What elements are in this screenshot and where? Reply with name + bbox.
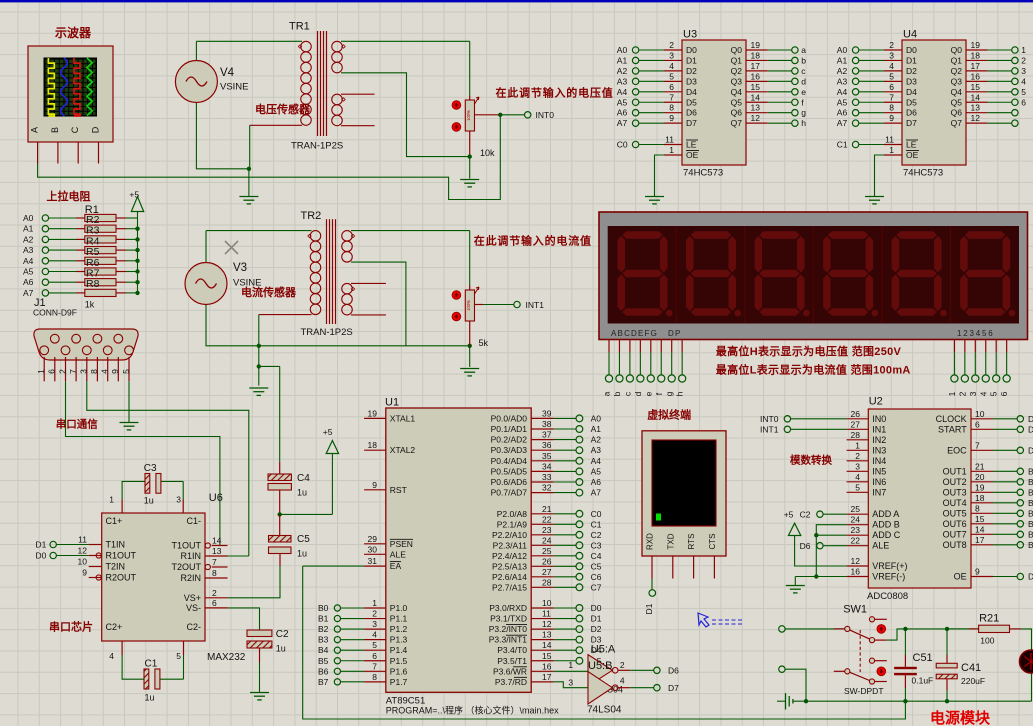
svg-text:A1: A1 [591, 424, 602, 434]
svg-text:T2OUT: T2OUT [171, 562, 201, 572]
svg-text:LE: LE [906, 140, 917, 150]
svg-text:B5: B5 [318, 656, 329, 666]
svg-text:3: 3 [79, 369, 89, 374]
svg-text:INT0: INT0 [760, 414, 779, 424]
svg-text:D6: D6 [686, 108, 697, 118]
svg-text:U5:B: U5:B [588, 660, 612, 672]
svg-text:最高位L表示显示为电流值 范围100mA: 最高位L表示显示为电流值 范围100mA [716, 363, 911, 377]
svg-text:EA: EA [390, 561, 402, 571]
svg-text:B0: B0 [318, 603, 329, 613]
svg-text:3: 3 [372, 619, 377, 629]
svg-text:U6: U6 [209, 492, 223, 504]
svg-text:最高位H表示显示为电压值 范围250V: 最高位H表示显示为电压值 范围250V [716, 344, 902, 358]
svg-text:A0: A0 [837, 45, 848, 55]
svg-text:D1: D1 [591, 614, 602, 624]
svg-text:3: 3 [855, 461, 860, 471]
svg-text:3: 3 [1021, 66, 1026, 76]
svg-text:A2: A2 [591, 435, 602, 445]
svg-text:2: 2 [372, 609, 377, 619]
svg-text:P0.2/AD2: P0.2/AD2 [491, 435, 528, 445]
svg-text:VREF(-): VREF(-) [872, 572, 905, 582]
svg-text:B4: B4 [318, 645, 329, 655]
svg-text:5: 5 [372, 640, 377, 650]
svg-text:16: 16 [851, 567, 861, 577]
svg-text:D2: D2 [906, 66, 917, 76]
svg-text:C3: C3 [144, 463, 157, 474]
svg-text:P3.2/INT0: P3.2/INT0 [489, 624, 528, 634]
svg-text:SW1: SW1 [843, 604, 867, 616]
svg-text:5: 5 [669, 71, 674, 81]
svg-text:3: 3 [669, 50, 674, 60]
svg-text:D3: D3 [686, 76, 697, 86]
svg-text:C1+: C1+ [106, 516, 123, 526]
svg-text:IN3: IN3 [872, 445, 886, 455]
svg-text:28: 28 [542, 577, 552, 587]
svg-text:A1: A1 [23, 224, 34, 234]
svg-text:+5: +5 [323, 427, 333, 437]
svg-text:P2.4/A12: P2.4/A12 [492, 551, 527, 561]
svg-text:220uF: 220uF [961, 676, 985, 686]
svg-text:CTS: CTS [708, 534, 717, 550]
svg-text:ALE: ALE [390, 549, 406, 559]
svg-text:C2-: C2- [186, 622, 201, 632]
svg-text:D: D [1028, 424, 1033, 434]
svg-text:4: 4 [372, 630, 377, 640]
svg-text:C1: C1 [591, 519, 602, 529]
svg-text:100%: 100% [466, 110, 471, 121]
svg-text:d: d [633, 391, 643, 396]
svg-text:7: 7 [68, 369, 78, 374]
svg-text:R2OUT: R2OUT [106, 573, 137, 583]
svg-text:P3.6/WR: P3.6/WR [493, 666, 527, 676]
svg-text:39: 39 [542, 408, 552, 418]
svg-text:TRAN-1P2S: TRAN-1P2S [291, 141, 343, 152]
svg-text:10: 10 [542, 598, 552, 608]
svg-text:TXD: TXD [666, 533, 675, 549]
svg-text:5k: 5k [479, 338, 489, 348]
svg-text:P1.3: P1.3 [390, 635, 408, 645]
svg-text:1: 1 [568, 660, 573, 670]
svg-text:9: 9 [889, 113, 894, 123]
svg-text:14: 14 [212, 536, 222, 546]
svg-text:P2.7/A15: P2.7/A15 [492, 582, 527, 592]
svg-text:19: 19 [975, 482, 985, 492]
svg-text:4: 4 [978, 391, 988, 396]
svg-text:TRAN-1P2S: TRAN-1P2S [301, 327, 353, 338]
svg-text:6: 6 [999, 391, 1009, 396]
svg-text:A7: A7 [591, 488, 602, 498]
svg-text:P0.0/AD0: P0.0/AD0 [491, 413, 528, 423]
svg-text:串口通信: 串口通信 [56, 418, 98, 431]
svg-text:A4: A4 [837, 87, 848, 97]
svg-text:C2: C2 [591, 530, 602, 540]
svg-text:V4: V4 [220, 67, 235, 79]
svg-text:U1: U1 [385, 397, 399, 409]
svg-text:100%: 100% [466, 300, 471, 311]
svg-text:C2: C2 [276, 629, 289, 640]
svg-text:IN0: IN0 [872, 414, 886, 424]
svg-text:2: 2 [212, 588, 217, 598]
svg-text:A4: A4 [23, 256, 34, 266]
svg-text:12: 12 [851, 556, 861, 566]
svg-text:Q2: Q2 [731, 66, 743, 76]
svg-text:34: 34 [542, 461, 552, 471]
svg-text:33: 33 [542, 472, 552, 482]
svg-text:A0: A0 [617, 45, 628, 55]
svg-text:16: 16 [751, 71, 761, 81]
svg-text:5: 5 [889, 71, 894, 81]
svg-text:T1IN: T1IN [106, 540, 126, 550]
svg-text:A5: A5 [617, 97, 628, 107]
svg-text:A3: A3 [837, 76, 848, 86]
svg-text:OUT7: OUT7 [943, 529, 967, 539]
svg-text:IN2: IN2 [872, 435, 886, 445]
svg-text:P3.3/INT1: P3.3/INT1 [489, 635, 528, 645]
svg-text:C1: C1 [145, 659, 158, 670]
svg-text:8: 8 [669, 103, 674, 113]
svg-text:11: 11 [542, 609, 551, 619]
svg-text:17: 17 [971, 61, 981, 71]
svg-text:g: g [801, 108, 806, 118]
svg-text:A2: A2 [23, 234, 34, 244]
svg-text:Q2: Q2 [951, 66, 963, 76]
svg-text:7: 7 [212, 557, 217, 567]
svg-text:3: 3 [568, 678, 573, 688]
svg-text:2: 2 [669, 40, 674, 50]
svg-text:A0: A0 [591, 413, 602, 423]
svg-text:1u: 1u [297, 488, 307, 498]
svg-text:OUT3: OUT3 [943, 487, 967, 497]
svg-text:13: 13 [542, 630, 552, 640]
svg-text:A6: A6 [591, 477, 602, 487]
svg-text:8: 8 [212, 568, 217, 578]
svg-text:C4: C4 [297, 473, 310, 484]
svg-text:D3: D3 [906, 76, 917, 86]
svg-text:INT0: INT0 [536, 110, 555, 120]
svg-text:A7: A7 [23, 288, 34, 298]
svg-text:8: 8 [372, 672, 377, 682]
svg-text:15: 15 [975, 514, 985, 524]
svg-text:OUT6: OUT6 [943, 519, 967, 529]
svg-text:V3: V3 [233, 262, 247, 274]
svg-text:74LS04: 74LS04 [587, 705, 622, 716]
svg-text:SW-DPDT: SW-DPDT [844, 686, 884, 696]
svg-text:P1.7: P1.7 [390, 677, 408, 687]
svg-text:2: 2 [855, 451, 860, 461]
svg-text:ALE: ALE [872, 541, 889, 551]
svg-text:T1OUT: T1OUT [171, 541, 201, 551]
svg-text:D: D [91, 126, 101, 133]
svg-text:2: 2 [957, 391, 967, 396]
svg-text:10k: 10k [480, 148, 495, 158]
svg-text:6: 6 [47, 369, 57, 374]
svg-text:P2.3/A11: P2.3/A11 [493, 540, 528, 550]
svg-text:B: B [1028, 498, 1033, 508]
svg-text:c: c [801, 66, 806, 76]
svg-text:Q0: Q0 [951, 45, 963, 55]
svg-text:A5: A5 [837, 97, 848, 107]
svg-text:21: 21 [975, 461, 985, 471]
svg-text:P1.1: P1.1 [390, 614, 408, 624]
svg-text:a: a [602, 391, 612, 396]
svg-text:27: 27 [851, 419, 861, 429]
svg-text:Q7: Q7 [731, 118, 743, 128]
svg-text:11: 11 [885, 135, 894, 145]
svg-text:2: 2 [620, 660, 625, 670]
svg-text:U5:A: U5:A [591, 644, 616, 656]
svg-text:D0: D0 [36, 551, 47, 561]
svg-text:1: 1 [889, 145, 894, 155]
svg-text:IN4: IN4 [872, 456, 886, 466]
svg-text:c: c [622, 391, 632, 396]
svg-text:C: C [70, 126, 80, 133]
svg-text:A2: A2 [837, 66, 848, 76]
svg-text:D6: D6 [800, 541, 811, 551]
svg-text:20: 20 [975, 472, 985, 482]
svg-text:4: 4 [109, 651, 114, 661]
svg-text:ADD B: ADD B [872, 520, 900, 530]
svg-text:7: 7 [372, 661, 377, 671]
svg-text:10: 10 [975, 409, 985, 419]
svg-text:A3: A3 [617, 76, 628, 86]
svg-text:14: 14 [751, 92, 761, 102]
svg-text:D: D [1028, 572, 1033, 582]
svg-text:2: 2 [57, 369, 67, 374]
svg-text:1u: 1u [297, 549, 307, 559]
svg-text:D1: D1 [36, 540, 47, 550]
svg-text:P3.7/RD: P3.7/RD [495, 677, 527, 687]
svg-text:8: 8 [89, 369, 99, 374]
svg-text:74HC573: 74HC573 [683, 168, 723, 179]
svg-text:B: B [1028, 487, 1033, 497]
svg-text:7: 7 [889, 92, 894, 102]
svg-text:在此调节输入的电流值: 在此调节输入的电流值 [474, 234, 592, 248]
svg-text:1: 1 [947, 391, 957, 396]
svg-text:5: 5 [1021, 87, 1026, 97]
svg-text:电压传感器: 电压传感器 [255, 102, 311, 116]
svg-text:C1-: C1- [186, 516, 201, 526]
svg-text:A5: A5 [23, 267, 34, 277]
svg-text:e: e [801, 87, 806, 97]
svg-text:B2: B2 [318, 624, 329, 634]
svg-text:g: g [664, 391, 674, 396]
svg-text:18: 18 [975, 493, 985, 503]
svg-text:TR2: TR2 [301, 210, 322, 222]
svg-text:P3.0/RXD: P3.0/RXD [489, 603, 527, 613]
svg-text:a: a [801, 45, 806, 55]
svg-text:13: 13 [212, 546, 222, 556]
svg-text:27: 27 [542, 567, 552, 577]
svg-text:CLOCK: CLOCK [936, 414, 967, 424]
svg-text:30: 30 [368, 544, 378, 554]
svg-text:A2: A2 [617, 66, 628, 76]
svg-text:A6: A6 [837, 108, 848, 118]
svg-text:B: B [1028, 540, 1033, 550]
svg-text:17: 17 [542, 672, 552, 682]
svg-text:IN5: IN5 [872, 466, 886, 476]
svg-text:1u: 1u [145, 693, 155, 703]
svg-text:C1: C1 [837, 140, 848, 150]
svg-text:U2: U2 [869, 396, 883, 408]
svg-text:1u: 1u [144, 496, 154, 506]
svg-text:D0: D0 [591, 603, 602, 613]
svg-text:P0.4/AD4: P0.4/AD4 [491, 456, 528, 466]
svg-text:A1: A1 [617, 55, 628, 65]
svg-text:29: 29 [368, 534, 378, 544]
svg-text:17: 17 [975, 535, 985, 545]
svg-text:P3.1/TXD: P3.1/TXD [490, 614, 527, 624]
svg-text:4: 4 [1021, 76, 1026, 86]
svg-text:12: 12 [78, 546, 88, 556]
svg-text:C5: C5 [591, 561, 602, 571]
svg-text:A3: A3 [23, 245, 34, 255]
svg-text:1: 1 [855, 440, 860, 450]
svg-text:B7: B7 [318, 677, 329, 687]
svg-text:14: 14 [971, 92, 981, 102]
svg-text:D0: D0 [686, 45, 697, 55]
svg-text:B: B [1028, 477, 1033, 487]
svg-text:35: 35 [542, 451, 552, 461]
svg-text:Q4: Q4 [951, 87, 963, 97]
svg-text:MAX232: MAX232 [207, 652, 246, 663]
svg-text:Q3: Q3 [951, 76, 963, 86]
svg-text:P1.6: P1.6 [390, 666, 408, 676]
svg-text:5: 5 [855, 482, 860, 492]
svg-text:模数转换: 模数转换 [790, 454, 832, 467]
svg-text:14: 14 [542, 640, 552, 650]
svg-text:串口芯片: 串口芯片 [49, 620, 93, 634]
svg-text:25: 25 [542, 546, 552, 556]
svg-text:D2: D2 [686, 66, 697, 76]
svg-text:5: 5 [989, 391, 999, 396]
svg-text:P2.2/A10: P2.2/A10 [492, 530, 527, 540]
svg-text:h: h [675, 391, 685, 396]
svg-text:VS-: VS- [186, 603, 201, 613]
svg-text:A6: A6 [617, 108, 628, 118]
svg-text:A4: A4 [591, 456, 602, 466]
svg-text:21: 21 [542, 504, 552, 514]
svg-text:P0.7/AD7: P0.7/AD7 [491, 488, 528, 498]
svg-text:6: 6 [889, 82, 894, 92]
svg-text:B1: B1 [318, 614, 329, 624]
svg-text:4: 4 [669, 61, 674, 71]
svg-text:D: D [1028, 445, 1033, 455]
svg-text:19: 19 [368, 408, 378, 418]
svg-text:32: 32 [542, 483, 552, 493]
svg-text:INT1: INT1 [526, 300, 545, 310]
svg-text:11: 11 [78, 535, 87, 545]
svg-text:OE: OE [954, 572, 967, 582]
svg-text:P2.5/A13: P2.5/A13 [492, 561, 527, 571]
svg-text:15: 15 [542, 651, 552, 661]
svg-text:R8: R8 [86, 278, 100, 290]
svg-text:RTS: RTS [687, 534, 696, 550]
svg-text:P2.0/A8: P2.0/A8 [497, 509, 528, 519]
svg-text:13: 13 [971, 103, 981, 113]
svg-text:4: 4 [889, 61, 894, 71]
svg-text:B: B [50, 127, 60, 133]
svg-text:P2.1/A9: P2.1/A9 [497, 519, 528, 529]
svg-text:31: 31 [368, 556, 378, 566]
svg-text:2: 2 [1021, 55, 1026, 65]
svg-text:2: 2 [889, 40, 894, 50]
svg-text:T2IN: T2IN [106, 562, 126, 572]
svg-text:e: e [643, 391, 653, 396]
svg-text:6: 6 [212, 598, 217, 608]
svg-text:+5: +5 [784, 510, 794, 520]
svg-text:b: b [801, 55, 806, 65]
svg-text:6: 6 [372, 651, 377, 661]
svg-text:电源模块: 电源模块 [930, 709, 991, 726]
svg-text:Q6: Q6 [951, 108, 963, 118]
svg-text:3: 3 [968, 391, 978, 396]
svg-text:0.1uF: 0.1uF [912, 676, 934, 686]
svg-text:LE: LE [686, 140, 697, 150]
svg-text:C5: C5 [297, 534, 310, 545]
svg-text:B: B [1028, 519, 1033, 529]
svg-text:VSINE: VSINE [220, 82, 249, 93]
svg-text:16: 16 [971, 71, 981, 81]
svg-text:D1: D1 [906, 55, 917, 65]
svg-text:7: 7 [975, 440, 980, 450]
svg-text:9: 9 [669, 113, 674, 123]
svg-text:OUT5: OUT5 [943, 508, 967, 518]
svg-text:36: 36 [542, 440, 552, 450]
svg-text:28: 28 [851, 430, 861, 440]
svg-text:B: B [1028, 529, 1033, 539]
svg-text:在此调节输入的电压值: 在此调节输入的电压值 [496, 86, 614, 100]
svg-text:B: B [1028, 508, 1033, 518]
svg-text:U3: U3 [683, 29, 697, 41]
svg-text:d: d [801, 76, 806, 86]
svg-text:C41: C41 [961, 662, 981, 674]
svg-text:Q7: Q7 [951, 118, 963, 128]
svg-text:123456: 123456 [957, 329, 995, 338]
svg-text:D6: D6 [906, 108, 917, 118]
svg-text:11: 11 [665, 135, 674, 145]
svg-text:B6: B6 [318, 666, 329, 676]
svg-text:9: 9 [110, 369, 120, 374]
svg-text:Q4: Q4 [731, 87, 743, 97]
svg-text:A7: A7 [617, 118, 628, 128]
svg-text:C4: C4 [591, 551, 602, 561]
svg-text:OUT2: OUT2 [943, 477, 967, 487]
svg-text:U4: U4 [903, 29, 917, 41]
svg-text:C6: C6 [591, 572, 602, 582]
svg-text:XTAL2: XTAL2 [390, 445, 416, 455]
svg-text:15: 15 [971, 82, 981, 92]
svg-text:D6: D6 [668, 666, 679, 676]
svg-text:D0: D0 [906, 45, 917, 55]
svg-text:12: 12 [542, 619, 552, 629]
svg-text:PROGRAM=..\程序 （核心文件）\main.hex: PROGRAM=..\程序 （核心文件）\main.hex [386, 705, 559, 716]
svg-text:OUT1: OUT1 [943, 466, 967, 476]
svg-text:26: 26 [542, 556, 552, 566]
svg-text:P0.6/AD6: P0.6/AD6 [491, 477, 528, 487]
svg-text:R2IN: R2IN [180, 573, 201, 583]
svg-text:C0: C0 [617, 140, 628, 150]
svg-text:12: 12 [971, 113, 981, 123]
svg-text:B3: B3 [318, 635, 329, 645]
svg-text:12: 12 [751, 113, 761, 123]
svg-text:D2: D2 [591, 624, 602, 634]
svg-text:4: 4 [620, 676, 625, 686]
svg-text:D7: D7 [686, 118, 697, 128]
svg-text:22: 22 [851, 536, 861, 546]
svg-text:1: 1 [36, 369, 46, 374]
svg-text:P3.5/T1: P3.5/T1 [497, 656, 527, 666]
svg-text:9: 9 [975, 567, 980, 577]
